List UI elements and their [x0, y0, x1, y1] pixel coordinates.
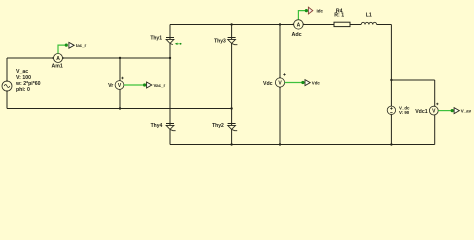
svg-text:A: A: [297, 22, 301, 28]
svg-text:Iac_r: Iac_r: [76, 43, 87, 48]
svg-text:phi: 0: phi: 0: [16, 87, 30, 93]
svg-text:V: 90: V: 90: [399, 110, 410, 115]
svg-text:A: A: [56, 56, 60, 62]
svg-text:Am1: Am1: [52, 64, 63, 70]
svg-text:Vdc: Vdc: [263, 81, 273, 87]
svg-text:V_av: V_av: [461, 109, 472, 114]
svg-text:Thy1: Thy1: [150, 35, 162, 41]
svg-text:L1: L1: [366, 13, 372, 19]
svg-text:Thy2: Thy2: [212, 123, 224, 129]
svg-text:Vac_r: Vac_r: [154, 83, 166, 88]
svg-text:Thy4: Thy4: [151, 123, 163, 129]
svg-text:Vdc: Vdc: [312, 81, 321, 86]
svg-text:Vdc1: Vdc1: [415, 109, 428, 115]
svg-text:R: 1: R: 1: [334, 13, 344, 19]
svg-text:Idc: Idc: [317, 8, 324, 13]
svg-text:Thy3: Thy3: [214, 38, 226, 44]
svg-text:Vr: Vr: [108, 83, 113, 89]
svg-text:Adc: Adc: [292, 32, 302, 38]
